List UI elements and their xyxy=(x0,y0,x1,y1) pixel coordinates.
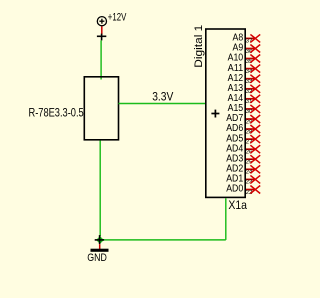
GND pin cross xyxy=(95,235,104,244)
voltage regulator U1 body xyxy=(84,77,118,140)
svg-text:Digital 1: Digital 1 xyxy=(193,25,205,68)
power pin + of connector xyxy=(211,110,219,118)
wire 3.3V from regulator output to connector xyxy=(119,103,207,105)
pin AD2 of X1a xyxy=(226,164,260,176)
svg-text:+12V: +12V xyxy=(108,11,127,23)
svg-text:R-78E3.3-0.5: R-78E3.3-0.5 xyxy=(29,105,84,119)
wire regulator output to ground junction xyxy=(99,141,101,237)
pin of +12V supply (red) xyxy=(101,26,103,34)
pin cross of +12V xyxy=(97,34,106,41)
pin A8 of X1a xyxy=(233,33,261,45)
wire to ground junction xyxy=(100,239,226,241)
pin AD7 of X1a xyxy=(226,113,260,125)
pin A15 of X1a xyxy=(228,103,261,115)
junction dot xyxy=(96,236,104,244)
wire from +12V to regulator input xyxy=(100,40,102,79)
pin AD6 of X1a xyxy=(226,123,260,135)
GND symbol bar xyxy=(91,249,109,252)
supply symbol +12V circle-plus xyxy=(97,17,106,26)
wire from connector GND pin down xyxy=(225,198,227,240)
pin A11 of X1a xyxy=(228,63,261,75)
svg-text:GND: GND xyxy=(87,252,107,264)
GND pin red segment xyxy=(99,244,101,249)
pin A13 of X1a xyxy=(228,83,261,95)
connector X1a body xyxy=(206,29,245,197)
svg-text:3.3V: 3.3V xyxy=(152,89,174,103)
svg-text:AD0: AD0 xyxy=(226,184,244,195)
pin AD5 of X1a xyxy=(226,133,260,145)
pin A9 of X1a xyxy=(233,43,261,55)
pin A10 of X1a xyxy=(228,53,261,65)
pin AD1 of X1a xyxy=(226,174,260,186)
pin A14 of X1a xyxy=(228,93,261,105)
pin AD4 of X1a xyxy=(226,143,260,155)
svg-text:X1a: X1a xyxy=(228,198,247,212)
pin AD3 of X1a xyxy=(226,153,260,165)
pin AD0 of X1a xyxy=(226,184,260,196)
pin A12 of X1a xyxy=(228,73,261,85)
